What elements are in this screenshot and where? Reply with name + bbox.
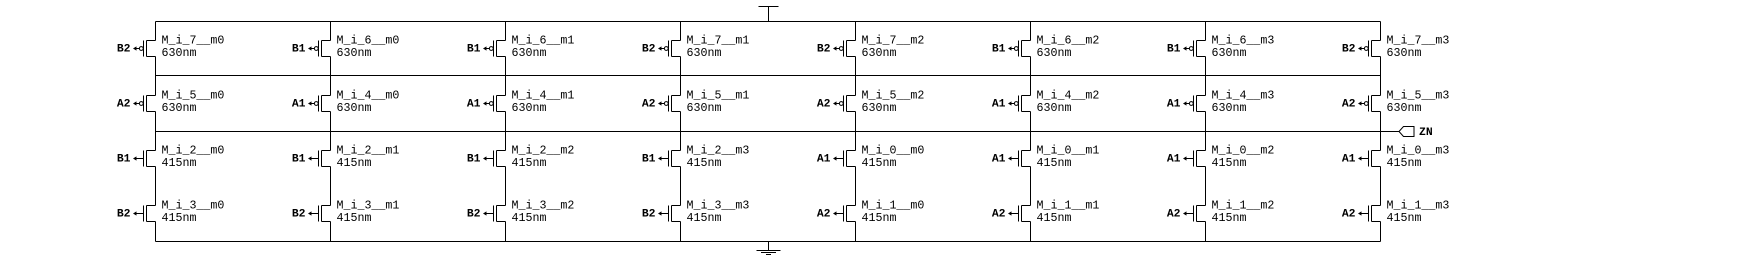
transistor M_i_2__m1 NMOS 415nm gate B1 — [308, 151, 331, 167]
svg-text:A2: A2 — [1342, 99, 1356, 111]
transistor M_i_2__m3 NMOS 415nm gate B1 — [658, 151, 681, 167]
wire column 7 VDD to row1 — [1205, 22, 1207, 41]
svg-text:M_i_1__m3: M_i_1__m3 — [1387, 200, 1450, 213]
transistor M_i_4__m0 PMOS 630nm gate A1 — [308, 96, 331, 112]
transistor M_i_3__m1 NMOS 415nm gate B2 — [308, 206, 331, 222]
transistor M_i_6__m3 PMOS 630nm gate B1 — [1183, 41, 1206, 57]
transistor M_i_6__m0 PMOS 630nm gate B1 — [308, 41, 331, 57]
svg-text:630nm: 630nm — [1037, 47, 1072, 60]
transistor M_i_6__m2 PMOS 630nm gate B1 — [1008, 41, 1031, 57]
wire column 2 VDD to row1 — [330, 22, 332, 41]
transistor M_i_1__m2 NMOS 415nm gate A2 — [1183, 206, 1206, 222]
svg-text:A2: A2 — [117, 99, 131, 111]
wire column 6 VDD to row1 — [1030, 22, 1032, 41]
svg-text:B2: B2 — [117, 209, 131, 221]
wire column 6 row1 to row2 — [1030, 57, 1032, 96]
svg-text:630nm: 630nm — [512, 102, 547, 115]
svg-text:A2: A2 — [1342, 209, 1356, 221]
transistor M_i_3__m0 NMOS 415nm gate B2 — [133, 206, 156, 222]
transistor M_i_3__m2 NMOS 415nm gate B2 — [483, 206, 506, 222]
wire column 7 row3 to row4 — [1205, 167, 1207, 206]
transistor M_i_1__m1 NMOS 415nm gate A2 — [1008, 206, 1031, 222]
svg-text:630nm: 630nm — [512, 47, 547, 60]
svg-text:M_i_6__m3: M_i_6__m3 — [1212, 35, 1275, 48]
svg-text:A1: A1 — [292, 99, 306, 111]
svg-text:415nm: 415nm — [337, 212, 372, 225]
wire column 3 row3 to row4 — [505, 167, 507, 206]
wire output net ZN — [156, 131, 1400, 133]
svg-text:630nm: 630nm — [1212, 102, 1247, 115]
wire column 4 row1 to row2 — [680, 57, 682, 96]
wire VDD top rail — [156, 21, 1381, 23]
wire column 2 row3 to row4 — [330, 167, 332, 206]
wire column 8 row4 to VSS — [1380, 222, 1382, 242]
transistor M_i_5__m2 PMOS 630nm gate A2 — [833, 96, 856, 112]
svg-text:630nm: 630nm — [862, 102, 897, 115]
transistor M_i_4__m2 PMOS 630nm gate A1 — [1008, 96, 1031, 112]
svg-text:M_i_2__m2: M_i_2__m2 — [512, 145, 575, 158]
svg-text:M_i_3__m1: M_i_3__m1 — [337, 200, 400, 213]
svg-text:M_i_4__m1: M_i_4__m1 — [512, 90, 575, 103]
wire column 5 row2 to row3 — [855, 112, 857, 151]
svg-text:M_i_0__m3: M_i_0__m3 — [1387, 145, 1450, 158]
svg-text:M_i_5__m3: M_i_5__m3 — [1387, 90, 1450, 103]
svg-text:M_i_1__m0: M_i_1__m0 — [862, 200, 925, 213]
svg-text:M_i_0__m1: M_i_0__m1 — [1037, 145, 1100, 158]
wire column 3 row1 to row2 — [505, 57, 507, 96]
svg-text:415nm: 415nm — [1037, 157, 1072, 170]
svg-text:M_i_5__m1: M_i_5__m1 — [687, 90, 750, 103]
transistor M_i_4__m3 PMOS 630nm gate A1 — [1183, 96, 1206, 112]
wire column 7 row1 to row2 — [1205, 57, 1207, 96]
svg-text:A1: A1 — [1167, 99, 1181, 111]
svg-text:B2: B2 — [1342, 44, 1356, 56]
svg-text:B2: B2 — [642, 44, 656, 56]
svg-text:A2: A2 — [642, 99, 656, 111]
svg-text:415nm: 415nm — [1037, 212, 1072, 225]
wire column 2 row4 to VSS — [330, 222, 332, 242]
svg-text:B1: B1 — [117, 154, 131, 166]
svg-text:415nm: 415nm — [512, 212, 547, 225]
svg-text:630nm: 630nm — [337, 102, 372, 115]
wire internal net between PMOS rows — [156, 75, 1381, 77]
wire column 5 row3 to row4 — [855, 167, 857, 206]
svg-text:B1: B1 — [642, 154, 656, 166]
svg-text:A1: A1 — [817, 154, 831, 166]
wire column 5 row4 to VSS — [855, 222, 857, 242]
wire column 1 row1 to row2 — [155, 57, 157, 96]
svg-text:B1: B1 — [992, 44, 1006, 56]
wire column 3 VDD to row1 — [505, 22, 507, 41]
svg-text:B2: B2 — [642, 209, 656, 221]
svg-text:M_i_6__m2: M_i_6__m2 — [1037, 35, 1100, 48]
svg-text:A1: A1 — [992, 154, 1006, 166]
transistor M_i_5__m0 PMOS 630nm gate A2 — [133, 96, 156, 112]
svg-text:415nm: 415nm — [1387, 212, 1422, 225]
svg-text:M_i_2__m1: M_i_2__m1 — [337, 145, 400, 158]
wire column 4 row3 to row4 — [680, 167, 682, 206]
svg-text:M_i_3__m3: M_i_3__m3 — [687, 200, 750, 213]
transistor M_i_2__m0 NMOS 415nm gate B1 — [133, 151, 156, 167]
svg-text:A1: A1 — [1167, 154, 1181, 166]
svg-text:ZN: ZN — [1419, 127, 1433, 139]
svg-text:M_i_4__m2: M_i_4__m2 — [1037, 90, 1100, 103]
transistor M_i_7__m3 PMOS 630nm gate B2 — [1358, 41, 1381, 57]
svg-text:M_i_3__m2: M_i_3__m2 — [512, 200, 575, 213]
svg-text:A2: A2 — [1167, 209, 1181, 221]
svg-text:415nm: 415nm — [1212, 212, 1247, 225]
svg-text:415nm: 415nm — [1212, 157, 1247, 170]
svg-text:M_i_7__m2: M_i_7__m2 — [862, 35, 925, 48]
svg-text:630nm: 630nm — [687, 47, 722, 60]
transistor M_i_4__m1 PMOS 630nm gate A1 — [483, 96, 506, 112]
svg-text:M_i_3__m0: M_i_3__m0 — [162, 200, 225, 213]
svg-text:M_i_6__m0: M_i_6__m0 — [337, 35, 400, 48]
wire column 4 VDD to row1 — [680, 22, 682, 41]
wire column 1 VDD to row1 — [155, 22, 157, 41]
transistor M_i_0__m3 NMOS 415nm gate A1 — [1358, 151, 1381, 167]
svg-text:B1: B1 — [1167, 44, 1181, 56]
wire column 8 row2 to row3 — [1380, 112, 1382, 151]
svg-text:M_i_4__m0: M_i_4__m0 — [337, 90, 400, 103]
transistor M_i_0__m0 NMOS 415nm gate A1 — [833, 151, 856, 167]
transistor M_i_0__m2 NMOS 415nm gate A1 — [1183, 151, 1206, 167]
svg-text:630nm: 630nm — [1212, 47, 1247, 60]
transistor M_i_1__m3 NMOS 415nm gate A2 — [1358, 206, 1381, 222]
svg-text:M_i_0__m2: M_i_0__m2 — [1212, 145, 1275, 158]
wire column 3 row4 to VSS — [505, 222, 507, 242]
svg-text:M_i_4__m3: M_i_4__m3 — [1212, 90, 1275, 103]
svg-text:A1: A1 — [992, 99, 1006, 111]
svg-text:M_i_2__m0: M_i_2__m0 — [162, 145, 225, 158]
transistor M_i_3__m3 NMOS 415nm gate B2 — [658, 206, 681, 222]
svg-text:415nm: 415nm — [512, 157, 547, 170]
svg-text:M_i_5__m2: M_i_5__m2 — [862, 90, 925, 103]
wire column 1 row3 to row4 — [155, 167, 157, 206]
wire column 3 row2 to row3 — [505, 112, 507, 151]
svg-text:630nm: 630nm — [162, 102, 197, 115]
svg-text:B2: B2 — [467, 209, 481, 221]
power VDD symbol — [759, 7, 779, 22]
wire column 7 row2 to row3 — [1205, 112, 1207, 151]
wire column 8 row3 to row4 — [1380, 167, 1382, 206]
svg-text:A1: A1 — [1342, 154, 1356, 166]
wire column 1 row4 to VSS — [155, 222, 157, 242]
svg-text:B1: B1 — [467, 154, 481, 166]
wire column 2 row2 to row3 — [330, 112, 332, 151]
svg-text:415nm: 415nm — [1387, 157, 1422, 170]
wire column 6 row4 to VSS — [1030, 222, 1032, 242]
svg-text:M_i_6__m1: M_i_6__m1 — [512, 35, 575, 48]
svg-text:A1: A1 — [467, 99, 481, 111]
svg-text:415nm: 415nm — [862, 212, 897, 225]
svg-text:415nm: 415nm — [162, 157, 197, 170]
svg-text:M_i_7__m0: M_i_7__m0 — [162, 35, 225, 48]
svg-text:B2: B2 — [292, 209, 306, 221]
transistor M_i_1__m0 NMOS 415nm gate A2 — [833, 206, 856, 222]
svg-text:M_i_1__m1: M_i_1__m1 — [1037, 200, 1100, 213]
svg-text:M_i_5__m0: M_i_5__m0 — [162, 90, 225, 103]
svg-text:M_i_7__m3: M_i_7__m3 — [1387, 35, 1450, 48]
svg-text:A2: A2 — [992, 209, 1006, 221]
wire column 5 row1 to row2 — [855, 57, 857, 96]
svg-text:M_i_0__m0: M_i_0__m0 — [862, 145, 925, 158]
ground VSS symbol — [757, 242, 781, 255]
transistor M_i_7__m1 PMOS 630nm gate B2 — [658, 41, 681, 57]
svg-text:630nm: 630nm — [162, 47, 197, 60]
wire column 6 row2 to row3 — [1030, 112, 1032, 151]
svg-text:M_i_1__m2: M_i_1__m2 — [1212, 200, 1275, 213]
svg-text:B2: B2 — [817, 44, 831, 56]
wire column 8 row1 to row2 — [1380, 57, 1382, 96]
wire column 1 row2 to row3 — [155, 112, 157, 151]
svg-text:B1: B1 — [292, 44, 306, 56]
wire column 2 row1 to row2 — [330, 57, 332, 96]
svg-text:630nm: 630nm — [1387, 47, 1422, 60]
svg-text:M_i_7__m1: M_i_7__m1 — [687, 35, 750, 48]
transistor M_i_0__m1 NMOS 415nm gate A1 — [1008, 151, 1031, 167]
svg-text:415nm: 415nm — [162, 212, 197, 225]
svg-text:A2: A2 — [817, 209, 831, 221]
wire column 6 row3 to row4 — [1030, 167, 1032, 206]
svg-text:B1: B1 — [467, 44, 481, 56]
transistor M_i_2__m2 NMOS 415nm gate B1 — [483, 151, 506, 167]
transistor M_i_7__m0 PMOS 630nm gate B2 — [133, 41, 156, 57]
svg-text:630nm: 630nm — [1387, 102, 1422, 115]
transistor M_i_5__m1 PMOS 630nm gate A2 — [658, 96, 681, 112]
svg-text:M_i_2__m3: M_i_2__m3 — [687, 145, 750, 158]
svg-text:415nm: 415nm — [862, 157, 897, 170]
transistor M_i_7__m2 PMOS 630nm gate B2 — [833, 41, 856, 57]
wire VSS bottom rail — [156, 241, 1381, 243]
svg-text:A2: A2 — [817, 99, 831, 111]
output pin ZN — [1399, 127, 1433, 139]
wire column 7 row4 to VSS — [1205, 222, 1207, 242]
svg-text:B2: B2 — [117, 44, 131, 56]
svg-text:630nm: 630nm — [687, 102, 722, 115]
wire column 4 row2 to row3 — [680, 112, 682, 151]
transistor M_i_5__m3 PMOS 630nm gate A2 — [1358, 96, 1381, 112]
svg-text:415nm: 415nm — [687, 212, 722, 225]
wire column 4 row4 to VSS — [680, 222, 682, 242]
wire column 8 VDD to row1 — [1380, 22, 1382, 41]
transistor M_i_6__m1 PMOS 630nm gate B1 — [483, 41, 506, 57]
svg-text:630nm: 630nm — [337, 47, 372, 60]
wire column 5 VDD to row1 — [855, 22, 857, 41]
svg-text:630nm: 630nm — [862, 47, 897, 60]
svg-text:B1: B1 — [292, 154, 306, 166]
svg-text:630nm: 630nm — [1037, 102, 1072, 115]
svg-text:415nm: 415nm — [687, 157, 722, 170]
svg-text:415nm: 415nm — [337, 157, 372, 170]
